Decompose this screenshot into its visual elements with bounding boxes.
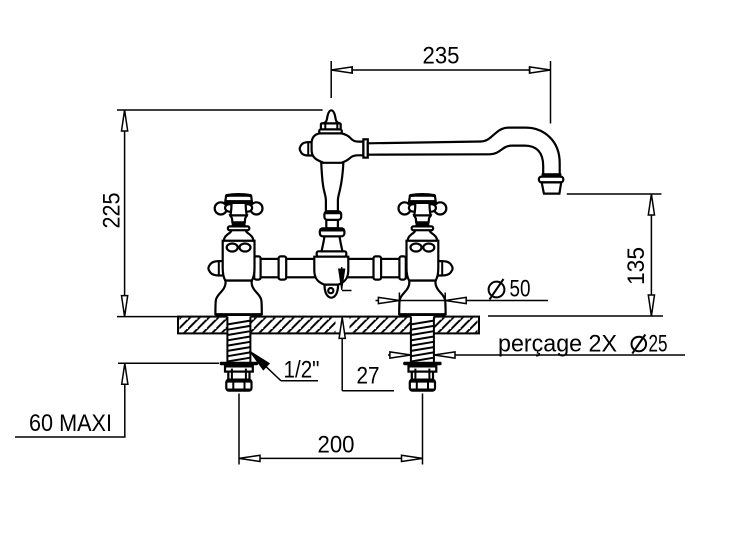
svg-text:50: 50 [510,276,531,303]
svg-text:1/2": 1/2" [284,357,320,384]
svg-text:225: 225 [99,193,126,229]
svg-text:25: 25 [649,331,668,358]
svg-text:235: 235 [423,43,460,70]
svg-text:135: 135 [623,247,650,285]
svg-text:27: 27 [357,362,380,389]
svg-text:200: 200 [318,432,355,459]
svg-text:perçage 2X: perçage 2X [498,331,617,358]
svg-text:60 MAXI: 60 MAXI [29,410,112,437]
